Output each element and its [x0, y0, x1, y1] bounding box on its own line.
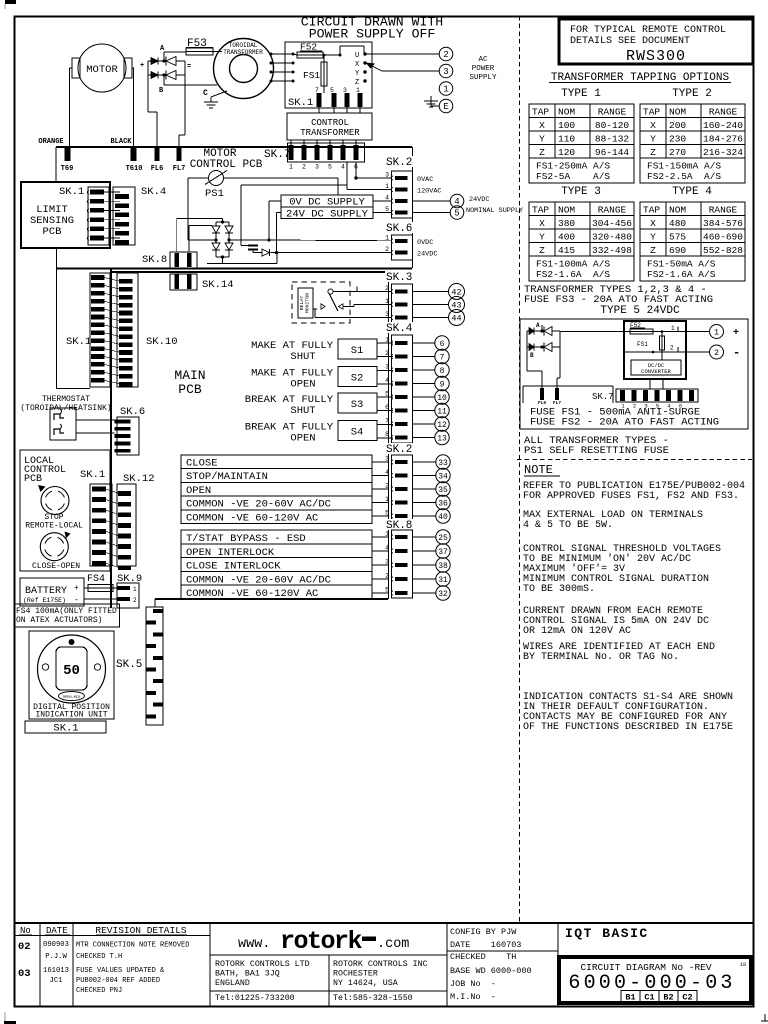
svg-text:(Ref E175E): (Ref E175E): [23, 597, 66, 604]
svg-text:www.: www.: [238, 937, 270, 952]
svg-text:FS4 100mA(ONLY FITTED: FS4 100mA(ONLY FITTED: [16, 607, 117, 616]
DPI window: [56, 647, 87, 690]
main PCB outline: [110, 269, 112, 609]
svg-text:SK.6: SK.6: [120, 406, 145, 418]
svg-text:FS2-1.6A A/S: FS2-1.6A A/S: [536, 269, 610, 280]
svg-text:JOB No -: JOB No -: [450, 979, 496, 989]
svg-text:CONFIG BY PJW: CONFIG BY PJW: [450, 927, 517, 937]
svg-text:DATE 160703: DATE 160703: [450, 940, 521, 950]
terminal 33: [413, 461, 436, 463]
svg-text:1: 1: [714, 328, 719, 337]
terminal E: [439, 99, 453, 113]
node A: [163, 52, 165, 61]
svg-text:PCB: PCB: [43, 226, 62, 238]
svg-text:9: 9: [440, 380, 445, 389]
svg-text:T610: T610: [126, 165, 143, 173]
svg-text:FS1-50mA A/S: FS1-50mA A/S: [647, 259, 716, 270]
svg-text:2: 2: [385, 483, 389, 490]
svg-text:380: 380: [558, 218, 575, 229]
svg-text:Z: Z: [650, 147, 656, 158]
limit sensing PCB box: [21, 182, 110, 248]
svg-text:DETAILS SEE DOCUMENT: DETAILS SEE DOCUMENT: [570, 36, 690, 47]
svg-text:TYPE 5 24VDC: TYPE 5 24VDC: [600, 305, 680, 317]
wire diode node to SK.6 pin 2: [271, 252, 392, 254]
registration mark bottom-left: [4, 1012, 6, 1021]
type5 wires module to SK.7: [649, 379, 651, 389]
svg-text:B1: B1: [625, 993, 635, 1003]
svg-text:FS1: FS1: [637, 341, 648, 348]
wires SK.1 pins to control transformer: [318, 107, 320, 113]
svg-text:PCB: PCB: [24, 474, 42, 485]
terminal 7: [413, 356, 435, 358]
svg-text:1: 1: [671, 325, 675, 332]
svg-text:TYPE 4: TYPE 4: [672, 186, 712, 198]
svg-text:SK.1: SK.1: [80, 469, 105, 481]
svg-text:SK.1: SK.1: [53, 723, 78, 735]
terminal FL7: [177, 148, 182, 161]
svg-text:0VDC: 0VDC: [417, 239, 433, 247]
svg-text:M.I.No -: M.I.No -: [450, 992, 496, 1002]
svg-text:SK.7: SK.7: [592, 392, 614, 402]
type5 bridge wires down: [526, 347, 528, 371]
svg-text:480: 480: [669, 218, 686, 229]
svg-text:690: 690: [669, 245, 686, 256]
wire B to toroid: [164, 84, 217, 86]
svg-text:110: 110: [558, 134, 575, 145]
control transformer T2: [287, 113, 372, 140]
svg-text:RELAY: RELAY: [299, 296, 305, 311]
svg-text:+: +: [140, 62, 144, 70]
svg-text:304-456: 304-456: [592, 218, 632, 229]
svg-text:4: 4: [385, 377, 389, 384]
limit loom outline: [56, 248, 58, 389]
svg-text:OF THE FUNCTIONS DESCRIBED IN: OF THE FUNCTIONS DESCRIBED IN E175E: [523, 722, 733, 733]
node B: [163, 75, 165, 85]
svg-text:SK.2: SK.2: [386, 444, 412, 456]
svg-text:216-324: 216-324: [703, 147, 743, 158]
DPI bezel circle: [38, 635, 106, 703]
wire motor right to T610: [132, 67, 134, 69]
svg-text:4: 4: [385, 545, 389, 552]
svg-text:NOM: NOM: [669, 107, 686, 118]
control rows box 1: [181, 455, 372, 524]
svg-text:50: 50: [63, 663, 80, 679]
wire 0V supply box to SK.2 pin 4: [373, 200, 392, 202]
svg-text:RANGE: RANGE: [598, 107, 627, 118]
svg-text:44: 44: [451, 314, 461, 324]
selector knob CLOSE-OPEN: [40, 533, 68, 561]
svg-text:OPEN: OPEN: [290, 433, 315, 445]
svg-text:5: 5: [328, 164, 332, 171]
wire bridge mid to 0V node: [229, 239, 269, 241]
terminal 37: [413, 550, 436, 552]
svg-text:Y: Y: [539, 134, 545, 145]
svg-text:SK.14: SK.14: [202, 279, 234, 291]
svg-text:PUB002-004 REF ADDED: PUB002-004 REF ADDED: [76, 977, 160, 985]
svg-text:TAP: TAP: [532, 205, 549, 216]
svg-text:7: 7: [440, 353, 445, 362]
svg-text:NY 14624, USA: NY 14624, USA: [333, 979, 398, 988]
svg-text:SUPPLY: SUPPLY: [469, 74, 497, 82]
svg-text:4: 4: [341, 164, 345, 171]
svg-text:NOM: NOM: [669, 205, 686, 216]
svg-text:TAP: TAP: [532, 107, 549, 118]
DC/DC converter: [631, 360, 681, 375]
terminal 31: [413, 578, 436, 580]
svg-text:SK.8: SK.8: [142, 254, 167, 266]
svg-text:24VDC: 24VDC: [417, 251, 437, 259]
terminal 43: [413, 304, 449, 306]
wire motor left to T69: [70, 67, 73, 69]
title block frame: [15, 922, 753, 924]
connector SK.8 control: [385, 519, 413, 530]
svg-text:FS2-5A A/S: FS2-5A A/S: [536, 171, 610, 182]
svg-text:38: 38: [438, 562, 448, 571]
DC bridge diodes: [216, 221, 229, 223]
connector SK.2 power: [385, 156, 413, 167]
wire F53 to toroidal transformer: [213, 51, 222, 53]
svg-text:CLOSE-OPEN: CLOSE-OPEN: [32, 562, 80, 571]
wire E to ground: [431, 105, 439, 107]
svg-text:96-144: 96-144: [595, 147, 630, 158]
svg-text:SK.1: SK.1: [288, 97, 313, 109]
svg-text:3: 3: [385, 311, 389, 318]
wire bridge left to FL6: [147, 75, 149, 112]
terminal 34: [413, 475, 436, 477]
svg-text:POWER: POWER: [472, 65, 495, 73]
svg-text:3: 3: [343, 87, 347, 94]
svg-text:575: 575: [669, 232, 686, 243]
terminal 12: [413, 423, 435, 425]
terminal 8: [413, 369, 435, 371]
thermostat switches: [50, 408, 76, 440]
wire A to F53: [164, 51, 186, 53]
type 5 circuit box: [520, 319, 748, 429]
svg-text:RANGE: RANGE: [709, 107, 738, 118]
svg-text:24V DC SUPPLY: 24V DC SUPPLY: [286, 209, 369, 221]
svg-text:S3: S3: [351, 399, 364, 411]
svg-text:CLOSE: CLOSE: [186, 458, 218, 470]
type5 wire top: [541, 325, 543, 331]
terminal 36: [413, 502, 436, 504]
svg-text:24VDC: 24VDC: [469, 196, 489, 204]
svg-text:TYPE 2: TYPE 2: [672, 88, 712, 100]
svg-text:T69: T69: [61, 165, 74, 173]
svg-text:Z: Z: [355, 79, 359, 87]
svg-text:161013: 161013: [43, 967, 69, 975]
terminal 3: [439, 64, 453, 78]
svg-text:FL7: FL7: [553, 400, 561, 406]
rotork logo: [210, 954, 447, 956]
svg-text:FUSE VALUES UPDATED &: FUSE VALUES UPDATED &: [76, 967, 165, 975]
svg-text:32: 32: [438, 590, 448, 599]
svg-text:2: 2: [385, 573, 389, 580]
svg-text:2: 2: [385, 350, 389, 357]
node 24VDC: [275, 251, 278, 254]
svg-text:BREAK AT FULLY: BREAK AT FULLY: [245, 422, 334, 434]
terminal 13: [413, 437, 435, 439]
svg-text:PS1 SELF RESETTING FUSE: PS1 SELF RESETTING FUSE: [524, 445, 669, 457]
svg-text:MTR CONNECTION NOTE REMOVED: MTR CONNECTION NOTE REMOVED: [76, 942, 189, 950]
svg-text:CHECKED TH: CHECKED TH: [450, 952, 516, 962]
svg-text:CHECKED T.H: CHECKED T.H: [76, 953, 122, 961]
wire through PS1: [188, 177, 209, 179]
svg-text:5: 5: [454, 209, 459, 219]
svg-text:COMMON -VE 60-120V AC: COMMON -VE 60-120V AC: [186, 512, 318, 524]
type5 power module box: [624, 321, 686, 379]
svg-text:POWER SUPPLY OFF: POWER SUPPLY OFF: [309, 27, 436, 42]
terminal 9: [413, 383, 435, 385]
svg-text:B2: B2: [663, 993, 673, 1003]
type5 bottom tray: [523, 385, 613, 387]
digital position indication unit box: [29, 631, 114, 719]
terminal 32: [413, 592, 436, 594]
svg-text:MAIN: MAIN: [174, 368, 205, 383]
svg-text:7: 7: [315, 87, 319, 94]
svg-text:35: 35: [438, 486, 448, 495]
wire 0V node to SK.6 pin 1: [269, 239, 392, 242]
separator dashed line: [519, 16, 521, 923]
svg-text:A: A: [536, 322, 540, 329]
svg-text:FOR TYPICAL REMOTE CONTROL: FOR TYPICAL REMOTE CONTROL: [570, 25, 726, 36]
svg-text:BLACK: BLACK: [110, 138, 132, 146]
svg-text:Tel:585-328-1550: Tel:585-328-1550: [333, 993, 413, 1003]
svg-text:3: 3: [385, 456, 389, 463]
svg-text:SK.10: SK.10: [146, 336, 178, 348]
svg-text:X: X: [539, 218, 545, 229]
svg-text:8: 8: [440, 367, 445, 376]
svg-text:CONTROL PCB: CONTROL PCB: [190, 159, 263, 171]
svg-text:BATH, BA1 3JQ: BATH, BA1 3JQ: [215, 970, 280, 979]
svg-text:NOTE: NOTE: [524, 463, 553, 477]
remote control note box: [559, 19, 753, 64]
svg-text:Y: Y: [650, 232, 656, 243]
terminal 4: [450, 194, 464, 208]
terminal 38: [413, 564, 436, 566]
wire SK.7 pin4 to SK.2 pin 1: [346, 162, 348, 190]
svg-text:120: 120: [558, 147, 575, 158]
svg-text:E: E: [443, 102, 448, 112]
svg-text:S4: S4: [351, 427, 364, 439]
svg-text:S1: S1: [351, 345, 364, 357]
svg-text:NOMINAL SUPPLY: NOMINAL SUPPLY: [466, 207, 523, 215]
address left: [328, 955, 330, 1006]
connector SK.6 right: [385, 222, 413, 233]
svg-text:COMMON -VE 20-60V AC/DC: COMMON -VE 20-60V AC/DC: [186, 499, 331, 511]
svg-text:SHUT: SHUT: [290, 351, 315, 363]
switch S4: [338, 421, 377, 441]
selector knob STOP/REMOTE-LOCAL: [41, 487, 69, 515]
terminal 35: [413, 488, 436, 490]
svg-text:NOM: NOM: [558, 107, 575, 118]
svg-text:SK.3: SK.3: [386, 272, 412, 284]
terminal T69: [65, 148, 71, 161]
svg-text:3: 3: [315, 164, 319, 171]
svg-text:SK.1: SK.1: [66, 336, 91, 348]
svg-text:FUSE FS2 - 20A ATO FAST ACTING: FUSE FS2 - 20A ATO FAST ACTING: [530, 417, 719, 429]
svg-text:5: 5: [385, 587, 389, 594]
DPI OPEN-MID tag: [59, 692, 85, 701]
toroid secondary wires to SK.1: [270, 53, 273, 56]
svg-text:270: 270: [669, 147, 686, 158]
svg-text:320-480: 320-480: [592, 232, 632, 243]
toroidal transformer T1: [214, 39, 274, 99]
svg-text:BREAK AT FULLY: BREAK AT FULLY: [245, 394, 334, 406]
svg-text:37: 37: [438, 548, 448, 557]
wire cap feed: [241, 184, 347, 186]
switch S2: [338, 367, 377, 387]
svg-text:SK.6: SK.6: [386, 223, 412, 235]
svg-text:0VAC: 0VAC: [417, 176, 433, 184]
wires SK.8 to DC bridge: [176, 219, 178, 253]
svg-text:100: 100: [558, 120, 575, 131]
wire 24V supply to diode node: [277, 212, 282, 214]
connector SK.1 power input box: [285, 42, 372, 108]
24V DC SUPPLY label box: [281, 207, 373, 219]
sheet tabs B1 C1 B2 C2: [621, 991, 640, 1002]
svg-text:13: 13: [437, 434, 447, 443]
wire U to terminal 2: [365, 53, 439, 55]
svg-text:SK.2: SK.2: [386, 157, 412, 169]
wire PS1 left branch down to bridge: [187, 178, 189, 240]
registration mark bottom-right: [764, 1014, 766, 1021]
svg-text:10: 10: [437, 394, 447, 403]
svg-text:IQT BASIC: IQT BASIC: [565, 926, 649, 941]
circuit diagram number box: [559, 957, 751, 1003]
wire toroid to ground C: [211, 91, 227, 97]
terminal 10: [413, 396, 435, 398]
local control PCB box: [20, 450, 110, 571]
switch S1: [338, 339, 377, 359]
svg-text:1: 1: [385, 298, 389, 305]
svg-text:2: 2: [133, 597, 137, 604]
svg-text:2: 2: [385, 285, 389, 292]
control rows box 2: [181, 530, 372, 599]
svg-text:184-276: 184-276: [703, 134, 743, 145]
svg-text:X: X: [539, 120, 545, 131]
svg-text:Tel:01225-733200: Tel:01225-733200: [215, 993, 295, 1003]
DPI screw right: [94, 664, 100, 670]
svg-text:384-576: 384-576: [703, 218, 743, 229]
svg-text:SK.4: SK.4: [386, 323, 413, 335]
svg-text:ORANGE: ORANGE: [38, 138, 63, 146]
svg-text:33: 33: [438, 459, 448, 468]
monitor relay label box: [298, 288, 313, 318]
svg-text:ON ATEX ACTUATORS): ON ATEX ACTUATORS): [16, 616, 102, 625]
svg-text:BY TERMINAL No. OR TAG No.: BY TERMINAL No. OR TAG No.: [523, 652, 679, 663]
connector SK.3: [385, 271, 413, 282]
wires thermostat to SK.6: [76, 419, 115, 421]
wire PS1 drop to supply: [337, 178, 339, 195]
svg-text:8: 8: [385, 431, 389, 438]
svg-text:SK.5: SK.5: [116, 659, 142, 671]
wire 0V supply to 0V node: [269, 200, 281, 202]
svg-text:1: 1: [385, 235, 389, 242]
svg-text:10: 10: [740, 962, 746, 968]
svg-text:OR 12mA ON 120V AC: OR 12mA ON 120V AC: [523, 626, 631, 637]
svg-text:4 & 5 TO BE 5W.: 4 & 5 TO BE 5W.: [523, 520, 613, 531]
svg-text:230: 230: [669, 134, 686, 145]
svg-text:CONVERTER: CONVERTER: [641, 368, 671, 375]
svg-text:REVISION DETAILS: REVISION DETAILS: [95, 925, 187, 936]
svg-text:1: 1: [385, 531, 389, 538]
bridge rectifier BR1 (AC): [148, 60, 185, 62]
svg-text:JC1: JC1: [50, 977, 63, 985]
svg-text:TO BE 300mS.: TO BE 300mS.: [523, 584, 595, 595]
svg-text:FS4: FS4: [87, 574, 105, 585]
svg-text:4: 4: [385, 195, 389, 202]
svg-text:36: 36: [438, 499, 448, 508]
svg-text:PS1: PS1: [205, 188, 224, 200]
svg-text:FL7: FL7: [173, 165, 186, 173]
connector SK.4 right: [385, 322, 413, 333]
svg-text:OPEN: OPEN: [290, 379, 315, 391]
svg-text:FS1-100mA A/S: FS1-100mA A/S: [536, 259, 610, 270]
svg-text:FOR APPROVED FUSES FS1, FS2 AN: FOR APPROVED FUSES FS1, FS2 AND FS3.: [523, 491, 739, 502]
type5 bridge rectifier: [527, 330, 560, 332]
svg-text:11: 11: [437, 407, 447, 416]
wire battery minus to SK.9: [84, 598, 117, 600]
terminal 11: [413, 410, 435, 412]
svg-text:SK.7: SK.7: [264, 149, 290, 161]
wire monitor relay to SK.3 pin 1: [343, 306, 354, 308]
svg-text:3: 3: [385, 559, 389, 566]
svg-text:1: 1: [385, 183, 389, 190]
svg-text:88-132: 88-132: [595, 134, 630, 145]
type5 wire 2: [624, 351, 686, 353]
wire monitor relay to SK.3 pin 3: [314, 309, 316, 318]
connector SK.14: [170, 274, 197, 290]
svg-text:Y: Y: [539, 232, 545, 243]
wire DC bridge bottom: [216, 256, 229, 258]
terminal 40: [413, 515, 436, 517]
svg-text:STOP/MAINTAIN: STOP/MAINTAIN: [186, 471, 268, 483]
svg-text:3: 3: [443, 67, 448, 77]
svg-text:Y: Y: [650, 134, 656, 145]
svg-text:ROTORK CONTROLS LTD: ROTORK CONTROLS LTD: [215, 960, 310, 969]
svg-text:TYPE 3: TYPE 3: [561, 186, 601, 198]
diode D1: [262, 249, 270, 256]
svg-text:Z: Z: [539, 147, 545, 158]
svg-text:.com: .com: [377, 937, 409, 952]
svg-text:U: U: [355, 52, 359, 60]
wire 24V supply box to SK.2 pin 5: [373, 212, 392, 214]
svg-text:SK.1: SK.1: [59, 186, 84, 198]
svg-text:090903: 090903: [43, 941, 69, 949]
DPI SK.1 banner: [25, 721, 106, 733]
svg-text:ENGLAND: ENGLAND: [215, 979, 250, 988]
svg-text:FS1: FS1: [303, 70, 320, 81]
svg-text:02: 02: [18, 941, 31, 953]
svg-text:2: 2: [302, 164, 306, 171]
svg-text:REMOTE-LOCAL: REMOTE-LOCAL: [25, 522, 83, 531]
svg-text:T/STAT BYPASS - ESD: T/STAT BYPASS - ESD: [186, 533, 306, 545]
switch S3: [338, 393, 377, 413]
wires control transformer to SK.7: [290, 140, 292, 146]
svg-text:1: 1: [356, 87, 360, 94]
svg-text:6: 6: [385, 404, 389, 411]
svg-text:TRANSFORMER: TRANSFORMER: [223, 49, 263, 56]
terminal T610: [131, 148, 137, 161]
svg-text:AC: AC: [478, 56, 488, 64]
main PCB boundary double line: [56, 268, 412, 270]
terminal FL6: [155, 148, 160, 161]
svg-text:2: 2: [443, 50, 448, 60]
svg-text:SK.12: SK.12: [123, 473, 155, 485]
terminal 42: [413, 291, 449, 293]
svg-text:160-240: 160-240: [703, 120, 743, 131]
svg-text:5: 5: [330, 87, 334, 94]
